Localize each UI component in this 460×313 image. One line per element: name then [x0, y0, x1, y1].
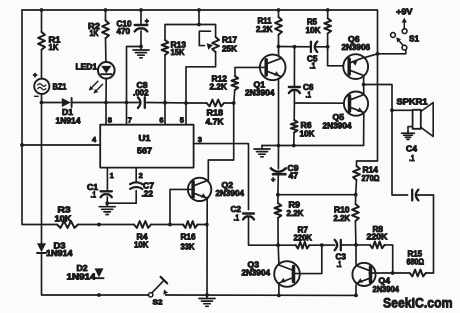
label R1 [49, 36, 62, 52]
svg-text:.1: .1 [310, 62, 316, 71]
pushbutton S2 [149, 277, 169, 297]
label +9V [396, 7, 413, 17]
resistor R5 [324, 18, 331, 33]
svg-text:+: + [145, 19, 149, 26]
resistor R6 [291, 120, 298, 133]
ground at C10 [133, 47, 149, 58]
label R2 [88, 22, 101, 38]
LED LED1 [89, 62, 115, 93]
diode D1 [62, 98, 72, 107]
minus BZ1 [35, 95, 39, 97]
diode D2 [95, 268, 104, 278]
wire R11 top lead [278, 10, 280, 17]
label R16 [181, 233, 197, 252]
wire R17 bottom to pin 5 [186, 52, 216, 125]
wire Q4 collector lead [355, 245, 357, 264]
wire speaker tap [392, 109, 412, 111]
wire R10 top lead [355, 195, 357, 204]
speaker SPKR1 [413, 103, 434, 137]
wire Q2 collector path [208, 103, 233, 182]
svg-text:220K: 220K [294, 234, 313, 243]
transistor Q6 2N3906 [343, 54, 368, 79]
label C7 [142, 182, 155, 199]
svg-text:.1: .1 [234, 214, 240, 223]
ground at C1/C7 node [99, 203, 115, 214]
resistor R3 [57, 221, 78, 228]
svg-text:33K: 33K [181, 243, 195, 252]
label R4 [134, 233, 149, 250]
wire speaker to ground [408, 127, 412, 133]
svg-text:5: 5 [180, 116, 184, 125]
pin label 5 [180, 116, 184, 125]
svg-text:U1: U1 [139, 134, 152, 143]
pin label 7 [128, 116, 132, 125]
label C5 [307, 55, 318, 71]
switch S1 [391, 18, 407, 50]
wire R3-R4 segment [78, 224, 134, 226]
svg-text:1K: 1K [90, 29, 99, 38]
IC U1 567 tone decoder [100, 125, 193, 168]
pin label 2 [139, 171, 143, 180]
capacitor C8 [138, 97, 145, 108]
capacitor C9 electrolytic [271, 168, 286, 174]
resistor R8 [370, 242, 385, 249]
wire R12 top / Q1 base [235, 67, 266, 76]
svg-text:.1: .1 [91, 191, 97, 200]
wiper arrow R17 [207, 43, 213, 49]
wire R16 to Q2 emitter [198, 224, 207, 226]
wire Q6 base [328, 47, 343, 66]
svg-text:BZ1: BZ1 [53, 82, 67, 91]
label C8 [133, 81, 149, 98]
watermark SeekIC.com [383, 296, 453, 311]
svg-text:2N3904: 2N3904 [216, 189, 245, 198]
wire C7 bottom to C1 node [107, 191, 136, 204]
label R9 [287, 201, 304, 219]
label Q4 [373, 277, 400, 294]
wire C3 to R10 node [341, 244, 356, 246]
transistor Q4 2N3904 [352, 263, 375, 286]
label SPKR1 [397, 98, 429, 107]
label C10 [117, 20, 133, 37]
resistor R10 [352, 204, 359, 221]
resistor R14 [353, 166, 360, 180]
svg-text:C4: C4 [406, 145, 418, 154]
wire C4 right to R15 [416, 195, 434, 273]
wire U1 pin1 lead [106, 168, 108, 190]
svg-text:567: 567 [137, 147, 153, 156]
wire C6 top lead [293, 47, 295, 86]
label C1 [87, 183, 99, 200]
wire Q3 base [292, 245, 322, 274]
wire R6 bottom lead [293, 133, 295, 146]
wire R14 bottom lead [355, 180, 358, 195]
wire node row to C5 [279, 46, 310, 48]
svg-text:SeekIC.com: SeekIC.com [383, 296, 453, 311]
wire C2 to Q3 collector row [249, 217, 296, 245]
pin label 4 [92, 135, 97, 144]
svg-text:S1: S1 [409, 34, 419, 44]
svg-text:2.2K: 2.2K [287, 209, 304, 218]
resistor R1 [38, 32, 45, 50]
label U1 [137, 134, 153, 156]
svg-text:R17: R17 [222, 36, 238, 45]
label Q2 [216, 181, 245, 198]
plus C9 [271, 175, 276, 184]
wire C5 to R5 node [317, 46, 328, 48]
wire C9 bottom lead [277, 175, 279, 195]
capacitor C4 [412, 190, 418, 201]
wire C1 bottom to ground node [106, 197, 108, 203]
label R6 [300, 121, 315, 139]
label LED1 [76, 63, 98, 72]
pin label 3 [198, 135, 202, 144]
buzzer BZ1 [34, 79, 49, 94]
wire C8 row right [147, 102, 186, 104]
label C2 [231, 205, 242, 223]
wire R18 right lead [224, 102, 234, 104]
svg-text:2.2K: 2.2K [334, 214, 351, 223]
resistor R13 [162, 40, 169, 55]
label R13 [171, 41, 187, 58]
label R3 [55, 206, 72, 224]
svg-text:8: 8 [108, 116, 112, 125]
label R15 [407, 250, 425, 267]
wire R11 bottom lead [278, 35, 280, 47]
wire C10 node to pin 7 [127, 47, 142, 125]
label S1 [409, 34, 419, 44]
wire R12 bottom lead [233, 90, 236, 103]
wire emitter ground row [262, 144, 364, 146]
label BZ1 [53, 82, 67, 91]
svg-text:R16: R16 [181, 233, 197, 242]
svg-text:270Ω: 270Ω [362, 174, 381, 183]
label R14 [362, 166, 381, 183]
capacitor C2 [243, 214, 254, 220]
svg-text:+: + [33, 73, 37, 80]
wire R8 to Q4 base drop [385, 245, 393, 273]
wire BZ1 bottom [41, 94, 43, 103]
wire Q2 base column [170, 189, 192, 224]
wire pin 6 / R13 bottom [164, 55, 166, 125]
transistor Q3 2N3904 [274, 261, 300, 287]
label C3 [336, 253, 347, 270]
wire R5 top lead [327, 10, 329, 18]
wire R17 wiper [199, 31, 210, 45]
svg-text:+: + [271, 175, 276, 184]
wire R10 node to R8 [356, 244, 370, 246]
svg-text:4.7K: 4.7K [206, 118, 224, 127]
svg-text:10K: 10K [306, 26, 321, 35]
wire R1 top lead [41, 10, 43, 32]
wire R9 top lead [277, 195, 279, 203]
label C6 [303, 83, 314, 100]
resistor R18 [207, 100, 224, 107]
svg-text:470: 470 [117, 27, 131, 36]
resistor R11 [275, 17, 282, 35]
svg-text:+9V: +9V [396, 7, 413, 17]
svg-text:1: 1 [110, 171, 114, 180]
svg-text:2.2K: 2.2K [256, 25, 273, 34]
svg-text:10K: 10K [134, 241, 149, 250]
pin label 6 [159, 116, 163, 125]
pin label 8 [108, 116, 112, 125]
svg-text:R3: R3 [58, 206, 72, 215]
label C9 [288, 164, 300, 181]
wire R5 bottom lead [327, 34, 329, 47]
wire R1 to BZ1 [41, 50, 43, 79]
wire D3 to bottom rail corner [42, 253, 149, 295]
ground under speaker [402, 132, 415, 139]
resistor R12 [231, 76, 238, 90]
pin label 1 [110, 171, 114, 180]
transistor Q5 2N3904 [344, 92, 368, 116]
svg-text:1N914: 1N914 [46, 249, 73, 258]
wire Q4 base lead [369, 272, 393, 274]
wire LED1 to pin8 node [105, 79, 107, 103]
svg-text:.22: .22 [142, 190, 154, 199]
wire Q1 collector [278, 47, 280, 57]
svg-text:2N3904: 2N3904 [323, 122, 353, 131]
label Q6 [342, 35, 371, 52]
label R11 [256, 17, 273, 34]
svg-text:47: 47 [289, 172, 299, 181]
svg-text:10K: 10K [300, 130, 315, 139]
wire bottom rail right of S2 [166, 294, 357, 296]
transistor Q2 2N3904 [188, 178, 211, 201]
wire left border to R3 row [22, 10, 57, 225]
label D2 [67, 264, 97, 282]
wire S1 branch [378, 50, 406, 54]
wire Q6 emitter to S1 node [364, 54, 378, 58]
svg-text:2N3904: 2N3904 [242, 269, 271, 278]
transistor Q1 2N3904 [260, 55, 286, 81]
wire R9 bottom lead [277, 218, 279, 245]
wire R7 to C3 [309, 244, 334, 246]
svg-text:1N914: 1N914 [67, 273, 97, 282]
wire C6 bottom lead [293, 91, 295, 103]
resistor R15 [410, 270, 426, 277]
label R7 [294, 226, 313, 243]
label R10 [334, 206, 351, 223]
svg-text:S2: S2 [153, 298, 163, 307]
svg-text:10K: 10K [55, 215, 72, 224]
wire BZ1 node down to D3 [41, 103, 43, 244]
svg-text:25K: 25K [222, 45, 237, 54]
wire C10 bottom to ground node [140, 31, 142, 47]
capacitor C5 [311, 42, 317, 52]
wire R6 top lead [293, 103, 295, 120]
wire U1 pin3 to C2 column [194, 144, 249, 210]
svg-text:15K: 15K [171, 48, 185, 57]
wire R9-R10 top row [278, 194, 356, 196]
ground under Q2 emitter [199, 295, 215, 306]
svg-text:7: 7 [128, 116, 132, 125]
svg-text:2: 2 [139, 171, 143, 180]
capacitor C6 [289, 87, 300, 93]
svg-text:2.2K: 2.2K [210, 83, 228, 92]
wire R2 top lead [105, 10, 107, 20]
svg-text:LED1: LED1 [76, 63, 98, 72]
svg-text:.1: .1 [337, 260, 342, 269]
label C4 [406, 145, 418, 164]
wire R10 bottom lead [354, 221, 357, 245]
label Q3 [242, 261, 271, 278]
label R8 [367, 225, 388, 242]
wire C8 row left [106, 102, 139, 104]
wire BZ1 to D1 [42, 102, 62, 104]
label R5 [306, 18, 321, 36]
svg-text:3: 3 [198, 135, 202, 144]
svg-text:2N3904: 2N3904 [373, 285, 400, 294]
svg-text:1N914: 1N914 [56, 117, 82, 126]
plus BZ1 [33, 73, 37, 80]
capacitor C1 [101, 191, 112, 197]
wire C10 top lead [140, 10, 142, 23]
svg-text:SPKR1: SPKR1 [397, 98, 429, 107]
wire Q1 emitter drop [278, 78, 280, 145]
svg-text:6: 6 [159, 116, 163, 125]
potentiometer R17 [212, 37, 219, 52]
label D3 [46, 242, 73, 259]
wire D1 to LED column [72, 102, 106, 104]
wire R18 left lead [186, 102, 207, 104]
wire Q5 base [294, 102, 343, 104]
capacitor C7 electrolytic [130, 182, 142, 189]
label R12 [210, 75, 228, 92]
wire top supply bus [22, 10, 378, 166]
wire Q5 collector [363, 85, 365, 95]
svg-text:R18: R18 [207, 109, 224, 118]
label D1 [56, 108, 82, 126]
wire pin4 to left rail [22, 144, 100, 146]
wire C9 top lead [277, 146, 279, 169]
svg-text:.1: .1 [306, 91, 312, 100]
resistor R2 [102, 20, 109, 38]
resistor R7 [296, 242, 310, 249]
wire R13 top to R17 top [165, 25, 216, 41]
wire R2 to LED1 [105, 38, 107, 62]
wire U1 pin2 / C7 column [135, 168, 137, 183]
wire Q5 emitter [363, 113, 365, 145]
resistor R4 [134, 221, 151, 228]
svg-text:680Ω: 680Ω [407, 258, 425, 267]
wire Q3 collector lead [277, 245, 280, 264]
svg-text:.1: .1 [409, 154, 415, 163]
label S2 [153, 298, 163, 307]
svg-text:2N3904: 2N3904 [245, 89, 275, 98]
wire Q4 emitter lead [355, 285, 357, 295]
wire Q3 emitter lead [278, 285, 280, 296]
label R17 [222, 36, 238, 54]
label Q5 [323, 113, 353, 131]
svg-text:4: 4 [92, 135, 97, 144]
resistor R16 [183, 221, 198, 228]
svg-text:220K: 220K [367, 233, 388, 242]
resistor R9 [275, 203, 282, 218]
label R18 [206, 109, 224, 127]
wire pin 8 [105, 103, 107, 125]
wire Q2 emitter drop [206, 197, 208, 295]
plus C10 [145, 19, 149, 26]
wire collector node to speaker/C4 column [364, 85, 408, 196]
svg-text:1K: 1K [49, 43, 59, 52]
wire top bus drop to R13/R17 node [198, 10, 200, 25]
svg-text:.002: .002 [133, 89, 149, 98]
wire Q6 collector [363, 76, 365, 85]
diode D3 [37, 243, 46, 253]
ground on emitter row [254, 146, 270, 157]
svg-text:2N3906: 2N3906 [342, 43, 371, 52]
label Q1 [245, 81, 275, 98]
wire R4-R16 segment [151, 224, 183, 226]
capacitor C3 [335, 240, 341, 250]
capacitor C10 [135, 25, 148, 31]
wire R15 left lead [393, 272, 410, 274]
